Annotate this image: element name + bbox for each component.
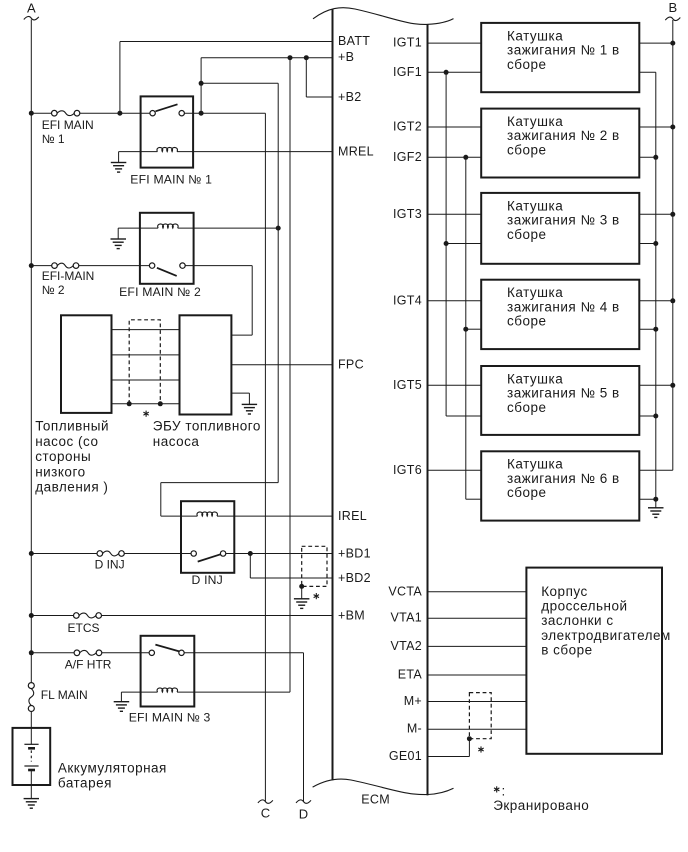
svg-text:зажигания № 1 в: зажигания № 1 в xyxy=(507,43,620,58)
ECU ground xyxy=(231,392,249,394)
shield dashed box M+/M- xyxy=(469,693,491,739)
wire coil 3 power to B bus xyxy=(639,213,673,215)
junction +BD1/+BD2 xyxy=(248,551,253,556)
ground battery xyxy=(24,799,39,809)
relay1 contacts xyxy=(150,111,155,116)
wire coil 6 power to B bus xyxy=(639,469,673,471)
junction bus A / D INJ fuse xyxy=(29,551,34,556)
wire FPC xyxy=(231,364,332,366)
svg-text:EFI MAIN № 1: EFI MAIN № 1 xyxy=(130,173,212,187)
wire coil 1 ground xyxy=(639,71,656,73)
svg-text:сборе: сборе xyxy=(507,57,547,72)
relay D INJ box xyxy=(181,501,234,573)
relay1 output wire to C xyxy=(184,112,265,114)
svg-text:Катушка: Катушка xyxy=(507,285,563,300)
svg-text:Корпус: Корпус xyxy=(541,584,588,599)
ECM left edge xyxy=(332,9,334,780)
svg-text:Топливный: Топливный xyxy=(35,419,109,434)
shield drain stem xyxy=(301,586,303,598)
wire IGF2 xyxy=(428,156,482,158)
shield star xyxy=(143,411,148,417)
relay2 output wire xyxy=(185,265,252,267)
svg-text:Аккумуляторная: Аккумуляторная xyxy=(58,761,167,776)
svg-text:ETCS: ETCS xyxy=(68,621,100,635)
B bus wire xyxy=(672,20,674,470)
ignition coil 6 box xyxy=(481,451,639,520)
wire IREL xyxy=(217,515,333,517)
bus A wire xyxy=(30,20,32,683)
wire coil 2 power to B bus xyxy=(639,126,673,128)
junction coil 4 / B bus xyxy=(670,298,675,303)
svg-text:низкого: низкого xyxy=(35,464,85,479)
legend star xyxy=(494,786,499,792)
junction coil 5 / B bus xyxy=(670,383,675,388)
battery cell 1 xyxy=(24,743,38,745)
svg-text:батарея: батарея xyxy=(58,776,112,791)
shielded harness dashed box xyxy=(129,320,160,404)
ignition coil 2 box xyxy=(481,109,639,178)
shield star GE01 xyxy=(478,746,483,752)
wire IGT3 xyxy=(428,213,482,215)
ignition coil 4 box xyxy=(481,280,639,349)
junction coil 1 / B bus xyxy=(670,41,675,46)
ignition coil 3 box xyxy=(481,193,639,264)
svg-text:сборе: сборе xyxy=(507,400,547,415)
junction BATT riser / relay1 wire xyxy=(117,111,122,116)
svg-text:VCTA: VCTA xyxy=(388,584,422,598)
svg-text:EFI MAIN № 2: EFI MAIN № 2 xyxy=(119,285,201,299)
relay EFI MAIN No1 box xyxy=(141,96,194,167)
svg-text:C: C xyxy=(261,806,270,821)
junction bus A / EFI-MAIN 2 fuse xyxy=(29,263,34,268)
wire M- xyxy=(428,728,527,730)
relay1 coil wire / MREL xyxy=(119,151,158,153)
junction IGF2 / coil4 xyxy=(463,327,468,332)
fuse ETCS xyxy=(74,613,80,619)
svg-text:дроссельной: дроссельной xyxy=(541,599,627,614)
svg-text:насоса: насоса xyxy=(153,434,200,449)
wire battery to ground xyxy=(30,770,32,799)
svg-text:насос (со: насос (со xyxy=(35,434,98,449)
ignition coil 5 box xyxy=(481,366,639,435)
wire IGT4 xyxy=(428,300,482,302)
wire feed to relay2/DINJ coils xyxy=(201,82,278,84)
ignition coil 1 box xyxy=(481,23,639,92)
svg-text:VTA1: VTA1 xyxy=(390,611,422,625)
wire +BD2 xyxy=(249,554,251,579)
svg-text:A: A xyxy=(27,0,36,15)
svg-text:Катушка: Катушка xyxy=(507,371,563,386)
wire coil 6 ground xyxy=(639,498,656,500)
wire coil5 IGF xyxy=(446,415,481,417)
wire VCTA xyxy=(428,591,527,593)
wire IGF1 vertical xyxy=(445,72,447,416)
svg-text:B: B xyxy=(668,0,677,15)
junction coil 4 / ground line xyxy=(653,327,658,332)
wire ETA xyxy=(428,674,527,676)
svg-text:сборе: сборе xyxy=(507,314,547,329)
wire +B2 xyxy=(305,58,307,97)
wire to battery xyxy=(30,712,32,745)
ground relay2 xyxy=(111,239,127,249)
wire coil6 IGF xyxy=(466,498,481,500)
ground relay3 xyxy=(114,702,130,712)
svg-text:давления ): давления ) xyxy=(35,480,108,495)
svg-text:стороны: стороны xyxy=(35,449,91,464)
svg-text:D INJ: D INJ xyxy=(192,573,223,587)
junction bus A / AF HTR fuse xyxy=(29,650,34,655)
svg-text:ETA: ETA xyxy=(398,668,423,682)
battery box xyxy=(13,728,51,785)
svg-text:зажигания № 6 в: зажигания № 6 в xyxy=(507,471,620,486)
wire IGT5 xyxy=(428,384,482,386)
ground fuel pump ECU xyxy=(242,404,257,414)
svg-text:+B2: +B2 xyxy=(338,90,362,104)
svg-text:+BD1: +BD1 xyxy=(338,546,371,560)
wire coil 3 ground xyxy=(639,243,656,245)
wire IGT1 xyxy=(428,42,482,44)
wire coil 1 power to B bus xyxy=(639,42,673,44)
svg-text:IGT6: IGT6 xyxy=(393,463,422,477)
relay1 ground stem xyxy=(118,152,120,163)
throttle body box xyxy=(526,568,662,754)
wire coil3 IGF xyxy=(446,243,481,245)
svg-text:в сборе: в сборе xyxy=(541,643,592,658)
junction bus A / ETCS fuse xyxy=(29,613,34,618)
ECM bottom torn edge xyxy=(313,779,454,795)
fuse EFI-MAIN No2 xyxy=(52,263,58,269)
wire +BD1 xyxy=(226,553,333,555)
junction coil 3 / B bus xyxy=(670,212,675,217)
svg-text:FPC: FPC xyxy=(338,358,364,372)
svg-text:BATT: BATT xyxy=(338,34,370,48)
junction x201 y83 xyxy=(199,81,204,86)
svg-text:D INJ: D INJ xyxy=(95,558,125,572)
break at C xyxy=(258,800,273,803)
wire coil 4 ground xyxy=(639,328,656,330)
battery dashed link xyxy=(30,750,32,761)
wire VTA1 xyxy=(428,617,527,619)
svg-text:EFI MAIN № 3: EFI MAIN № 3 xyxy=(129,711,211,725)
fuel pump ECU box xyxy=(180,315,232,414)
relay3 blade xyxy=(155,645,179,652)
relay3 contacts xyxy=(149,650,154,655)
relay DINJ coil xyxy=(197,512,217,516)
svg-text:IGT5: IGT5 xyxy=(393,378,422,392)
svg-text:IGF2: IGF2 xyxy=(393,150,422,164)
relay DINJ coil wire / IREL xyxy=(161,515,198,517)
wire coil 5 power to B bus xyxy=(639,384,673,386)
svg-text:IGT3: IGT3 xyxy=(393,207,422,221)
wire MREL xyxy=(177,151,333,153)
fuel pump box xyxy=(61,315,112,413)
relay EFI MAIN No2 box xyxy=(140,213,194,284)
wire coil ground line xyxy=(655,72,657,508)
svg-text:D: D xyxy=(299,807,308,822)
svg-text:MREL: MREL xyxy=(338,144,374,158)
break at D xyxy=(296,800,311,803)
svg-text:EFI MAIN: EFI MAIN xyxy=(42,118,94,132)
wire IGT2 xyxy=(428,126,482,128)
svg-text:VTA2: VTA2 xyxy=(390,639,422,653)
svg-text:электродвигателем: электродвигателем xyxy=(541,628,671,643)
ground ignition coils xyxy=(648,508,664,518)
wire AF HTR xyxy=(31,652,74,654)
svg-text:IREL: IREL xyxy=(338,509,367,523)
svg-text:Катушка: Катушка xyxy=(507,28,563,43)
wire coil 4 power to B bus xyxy=(639,300,673,302)
wire fuse row D INJ xyxy=(31,553,97,555)
svg-text:ECM: ECM xyxy=(361,793,390,807)
svg-text:IGT1: IGT1 xyxy=(393,36,422,50)
relay2 coil wire xyxy=(118,227,158,229)
svg-text:заслонки с: заслонки с xyxy=(541,613,613,628)
junction coil 2 / ground line xyxy=(653,155,658,160)
relay3 ground stem xyxy=(120,692,122,702)
junction +B/relay coil feed xyxy=(288,55,293,60)
ECM right edge xyxy=(427,24,429,795)
wire ETCS/+BM xyxy=(31,615,74,617)
junction bus A / EFI MAIN 1 fuse xyxy=(29,111,34,116)
relay3 output wire to D xyxy=(184,652,303,654)
svg-text:Экранировано: Экранировано xyxy=(493,798,589,813)
ground relay1 xyxy=(111,163,127,173)
wire IGF2 vertical xyxy=(465,157,467,499)
junction +B/+B2 branch xyxy=(304,55,309,60)
svg-text:Катушка: Катушка xyxy=(507,457,563,472)
break at node A xyxy=(24,16,39,19)
relay EFI MAIN No3 box xyxy=(141,636,195,707)
wire VTA2 xyxy=(428,645,527,647)
shield dashed box +BD xyxy=(302,546,327,586)
svg-text:сборе: сборе xyxy=(507,227,547,242)
wire BATT to relay1 output xyxy=(120,41,333,43)
junction IGF1 branch xyxy=(444,70,449,75)
shield drain dot GE01 xyxy=(467,736,472,741)
wire fuse row 2 xyxy=(31,265,52,267)
wire C line xyxy=(264,113,266,801)
svg-text:Катушка: Катушка xyxy=(507,198,563,213)
relay2 blade xyxy=(157,268,177,276)
wire coil4 IGF xyxy=(466,328,481,330)
ground shield +BD xyxy=(294,599,310,609)
svg-text:M-: M- xyxy=(407,722,422,736)
relay2 coil xyxy=(158,224,178,228)
svg-text:ЭБУ топливного: ЭБУ топливного xyxy=(153,419,261,434)
junction coil 2 / B bus xyxy=(670,125,675,130)
wire relay2 coil to +B feed xyxy=(178,227,279,229)
svg-text:M+: M+ xyxy=(404,694,422,708)
relay3 coil xyxy=(157,688,177,692)
svg-text:EFI-MAIN: EFI-MAIN xyxy=(42,269,95,283)
svg-text:сборе: сборе xyxy=(507,143,547,158)
relay DINJ blade xyxy=(198,554,221,561)
relay2 contacts xyxy=(149,263,154,268)
wire relay3 coil right (drawn with +B feed above) xyxy=(177,691,194,693)
svg-text:зажигания № 3 в: зажигания № 3 в xyxy=(507,213,620,228)
svg-text:A/F HTR: A/F HTR xyxy=(65,658,112,672)
svg-text:IGT4: IGT4 xyxy=(393,293,422,307)
break at node B xyxy=(665,17,680,20)
shield drain dot xyxy=(299,584,304,589)
wire IGT6 xyxy=(428,469,482,471)
svg-text:№ 2: № 2 xyxy=(42,283,65,297)
relay3 coil wire xyxy=(121,691,157,693)
svg-text:IGT2: IGT2 xyxy=(393,120,422,134)
relay2 ground stem xyxy=(117,228,119,239)
svg-text:сборе: сборе xyxy=(507,485,547,500)
fuse FL MAIN (fusible link) xyxy=(28,683,34,689)
svg-text:Катушка: Катушка xyxy=(507,114,563,129)
ECM top torn edge xyxy=(313,8,454,25)
wire coil-feed vertical to EFI MAIN 3 coil xyxy=(289,58,291,692)
wire coil 2 ground xyxy=(639,156,656,158)
fuse A/F HTR xyxy=(74,650,80,656)
wire IGF1 xyxy=(428,71,482,73)
junction IGF2 branch xyxy=(463,155,468,160)
junction IGF1 / coil3 xyxy=(444,241,449,246)
svg-text::: : xyxy=(502,783,506,798)
svg-text:FL MAIN: FL MAIN xyxy=(41,688,88,702)
fuse EFI MAIN No1 xyxy=(52,110,58,116)
junction coil 3 / ground line xyxy=(653,241,658,246)
shield star +BD xyxy=(314,593,319,599)
svg-text:№ 1: № 1 xyxy=(42,132,65,146)
wire D line xyxy=(303,653,305,802)
wire +B xyxy=(201,57,332,59)
relay1 blade xyxy=(156,104,178,111)
wire coil 5 ground xyxy=(639,415,656,417)
svg-text:+BD2: +BD2 xyxy=(338,571,371,585)
svg-text:зажигания № 4 в: зажигания № 4 в xyxy=(507,299,620,314)
battery cell 2 xyxy=(24,765,38,767)
svg-text:GE01: GE01 xyxy=(389,749,422,763)
svg-text:IGF1: IGF1 xyxy=(393,65,422,79)
wire M+ xyxy=(428,701,527,703)
svg-text:+B: +B xyxy=(338,50,354,64)
svg-text:+BM: +BM xyxy=(338,608,365,622)
wire fuse row 1 xyxy=(31,112,52,114)
junction relay2 coil / feed line xyxy=(276,226,281,231)
relay DINJ contacts xyxy=(191,551,196,556)
junction coil 6 / ground line xyxy=(653,497,658,502)
svg-text:зажигания № 2 в: зажигания № 2 в xyxy=(507,128,620,143)
junction coil 5 / ground line xyxy=(653,414,658,419)
junction relay1 output / +B riser xyxy=(199,111,204,116)
svg-text:зажигания № 5 в: зажигания № 5 в xyxy=(507,386,620,401)
wires pump to ECU xyxy=(112,329,180,331)
shield junction dots xyxy=(127,401,132,406)
relay1 coil xyxy=(157,147,177,151)
fuse D INJ xyxy=(97,551,103,557)
wire GE01 xyxy=(428,756,470,758)
